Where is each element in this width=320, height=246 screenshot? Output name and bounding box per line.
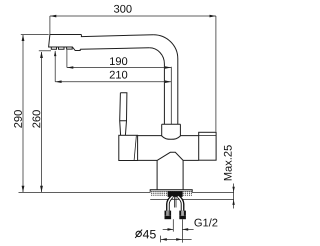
left hose	[168, 196, 172, 210]
flange plate	[150, 190, 192, 192]
supply shank through counter	[168, 191, 183, 197]
dim 260 extension top	[39, 50, 51, 52]
dim G1/2 extension lines	[173, 219, 182, 242]
countertop top line	[19, 191, 234, 193]
dim G1/2 line	[163, 228, 194, 230]
lever handle	[120, 93, 127, 136]
spout horizontal tube	[81, 35, 153, 37]
dim 260 line	[41, 52, 43, 192]
dim 190 line	[67, 67, 171, 69]
base cone	[157, 152, 183, 160]
dim 210 text	[110, 71, 115, 79]
dim 190 extension	[66, 50, 68, 68]
dim dia45 line	[161, 238, 192, 240]
dim Max.25	[233, 184, 235, 209]
center mounting stud	[175, 197, 176, 208]
aerator tab 1	[51, 47, 56, 49]
dim 300 line	[50, 15, 216, 17]
dim 300 extension left	[49, 16, 51, 34]
dim 290 text	[14, 123, 22, 128]
left valve block	[119, 135, 138, 160]
body arm bottom lines	[138, 159, 199, 161]
dim Max.25 text	[224, 173, 232, 180]
spout head	[49, 35, 82, 51]
right hose	[178, 196, 182, 210]
dim 290 line	[22, 35, 24, 193]
dim dia45 text	[136, 231, 141, 236]
base column	[157, 160, 183, 190]
dim dia45 tick	[160, 236, 162, 243]
right handle cap	[199, 132, 216, 160]
aerator tab 2	[59, 47, 65, 49]
dim 210 extension with up arrow	[54, 51, 56, 82]
dim 290 extension top	[21, 34, 49, 36]
dim G1/2 text	[194, 219, 201, 227]
body arm top lines	[138, 135, 199, 137]
left hose connector	[165, 211, 167, 216]
spout bend inner	[149, 48, 164, 124]
countertop bottom line	[150, 198, 233, 200]
right hose connector	[179, 211, 181, 216]
spout inner channel line	[170, 67, 172, 124]
spout bend outer	[153, 35, 177, 125]
dim 260 text	[32, 123, 40, 128]
bell collar	[162, 123, 181, 125]
dim 300 text	[114, 5, 119, 13]
dim 210 line	[55, 81, 171, 83]
dim 300 extension right	[215, 16, 217, 132]
aerator tab 3	[67, 47, 73, 49]
dim 190 text	[110, 57, 115, 65]
